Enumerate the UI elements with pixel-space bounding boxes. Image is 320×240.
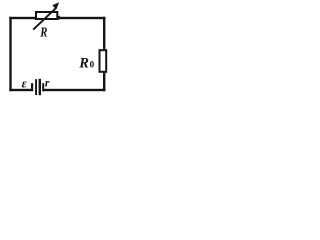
wire right vertical upper	[103, 17, 105, 50]
svg-text:R: R	[40, 25, 48, 40]
battery plate 2 (tall)	[35, 79, 37, 95]
svg-text:r: r	[45, 78, 50, 90]
rheostat arrowhead	[52, 2, 59, 9]
resistor R (rheostat body)	[36, 12, 57, 19]
svg-text:R: R	[78, 55, 89, 71]
svg-text:ε: ε	[22, 76, 28, 90]
rheostat arrow shaft	[33, 9, 55, 30]
battery plate 1 (short)	[31, 83, 33, 91]
wire right vertical lower	[103, 72, 105, 91]
battery plate 4 (short)	[42, 83, 44, 91]
resistor R0 body	[100, 50, 107, 72]
wire top-right segment	[58, 17, 106, 19]
svg-text:0: 0	[90, 60, 95, 70]
battery plate 3 (tall)	[39, 79, 41, 95]
wire top-left segment	[9, 17, 35, 19]
wire left vertical	[9, 17, 11, 91]
wire bottom-right segment	[44, 89, 106, 91]
wire bottom-left segment	[9, 89, 31, 91]
junction nub at rheostat right terminal	[57, 16, 60, 20]
